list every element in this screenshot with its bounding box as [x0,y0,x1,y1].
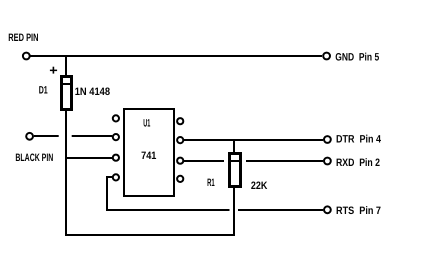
U1 left pin 2 [113,134,119,140]
svg-text:1N 4148: 1N 4148 [75,86,110,98]
plus sign polarity mark [50,67,57,74]
svg-text:RXD Pin 2: RXD Pin 2 [336,157,380,169]
U1 left pin 1 [113,115,119,121]
svg-text:U1: U1 [143,118,150,130]
svg-text:BLACK PIN: BLACK PIN [15,152,53,164]
resistor R1 [230,154,241,187]
wire U1 left pin 4 elbow down [107,177,112,211]
svg-text:D1: D1 [39,85,48,97]
wire resistor bottom lead to bottom rail [233,187,235,236]
wire U1 left pin 3 to diode cathode node [65,157,112,159]
wire RXD from U1 right pin 6 (left of resistor body) [184,160,224,162]
diode D1 [62,77,72,110]
wire resistor top lead from DTR line [233,139,235,153]
U1 left pin 4 [113,174,119,180]
wire RTS (right of crossover break) [238,209,323,211]
U1 right pin 6 [177,158,183,164]
terminal DTR Pin 4 [324,136,331,143]
U1 right pin 7 [177,137,183,143]
svg-text:741: 741 [141,150,156,162]
wire bottom rail [65,234,235,236]
svg-text:RTS Pin 7: RTS Pin 7 [336,205,381,217]
terminal RTS Pin 7 [324,206,331,213]
U1 right pin 8 [177,118,183,124]
terminal RED PIN [23,53,30,60]
terminal GND Pin 5 [323,53,330,60]
svg-text:22K: 22K [251,180,268,192]
terminal RXD Pin 2 [324,158,331,165]
wire RTS (left of crossover break) [106,209,230,211]
U1 left pin 3 [113,155,119,161]
terminal BLACK PIN [26,133,33,140]
wire BLACK PIN toward U1 pin 2 (right of crossover break) [72,135,113,137]
svg-text:R1: R1 [207,177,215,189]
wire BLACK PIN toward U1 pin 2 (left of crossover break) [34,135,59,137]
wire DTR from U1 right pin 7 [184,139,323,141]
svg-text:DTR Pin 4: DTR Pin 4 [336,134,381,146]
op-amp U1 (741 DIP body) [124,109,174,196]
wire diode cathode down to bottom rail [65,110,67,237]
wire RXD (right of resistor body) [246,160,323,162]
U1 right pin 5 [177,176,183,182]
svg-text:RED PIN: RED PIN [8,32,38,44]
svg-text:GND Pin 5: GND Pin 5 [335,51,379,63]
wire top rail RED PIN to GND [31,55,323,57]
wire diode anode branch from top rail [65,55,67,76]
